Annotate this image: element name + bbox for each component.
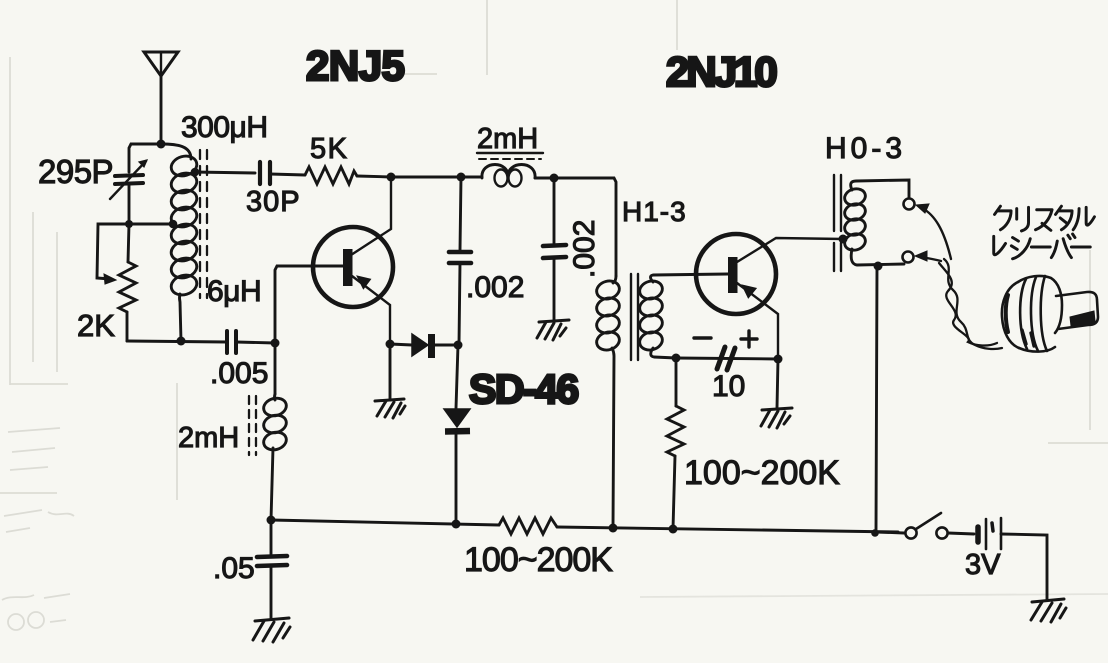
svg-text:30P: 30P bbox=[246, 186, 301, 218]
node rail L3 junction bbox=[267, 516, 276, 525]
svg-text:100~200K: 100~200K bbox=[464, 541, 613, 579]
capacitor C6 10uF electrolytic bbox=[676, 331, 778, 370]
switch S1 bbox=[876, 513, 974, 539]
node coil bottom junction bbox=[177, 337, 186, 346]
transistor Q1 2NJ5 bbox=[313, 177, 393, 344]
ground bottom right bbox=[1031, 599, 1066, 622]
wire emitter junction to ground bbox=[777, 359, 778, 408]
transformer T1 H1-3 bbox=[595, 274, 728, 528]
node C collector junction bbox=[387, 173, 396, 182]
svg-text:.05: .05 bbox=[213, 552, 255, 585]
svg-text:2NJ10: 2NJ10 bbox=[666, 48, 776, 95]
terminal 2 bbox=[903, 252, 914, 263]
node H diode junction bbox=[454, 341, 463, 350]
wire arrow to terminal 1 bbox=[916, 204, 951, 259]
variable capacitor C1 295P bbox=[110, 160, 147, 199]
wire 5K to node C bbox=[357, 176, 391, 177]
transistor Q2 2NJ10 bbox=[696, 234, 843, 357]
node rail H1-3 junction bbox=[609, 524, 618, 533]
node I bias left junction bbox=[672, 354, 681, 363]
svg-text:.002: .002 bbox=[466, 271, 524, 304]
node HO-3 bottom junction bbox=[874, 262, 883, 271]
svg-text:295P: 295P bbox=[38, 153, 113, 190]
node HO-3 tap bbox=[839, 235, 848, 244]
ground under Q1 emitter bbox=[375, 399, 405, 418]
capacitor .002 first bbox=[449, 177, 471, 344]
svg-text:.005: .005 bbox=[210, 357, 268, 390]
svg-text:6μH: 6μH bbox=[207, 275, 261, 308]
label crystal receiver katakana bbox=[994, 206, 1095, 259]
transformer T2 HO-3 bbox=[834, 175, 909, 271]
ground bottom left bbox=[253, 618, 290, 642]
core of L1 (dashed) bbox=[200, 150, 207, 298]
node G emitter junction bbox=[386, 340, 395, 349]
capacitor .005 bbox=[227, 331, 236, 353]
wire junction to variable capacitor bbox=[129, 144, 161, 172]
wire twisted cord bbox=[939, 259, 1002, 349]
wire node F to 2mH vertical coil bbox=[274, 343, 277, 394]
core of L3 dashed bbox=[249, 396, 256, 455]
wire node C to node D bbox=[391, 176, 461, 179]
wire pot bottom to .005 bbox=[127, 341, 227, 342]
antenna bbox=[144, 52, 178, 76]
terminal 1 bbox=[904, 199, 915, 210]
svg-text:H0-3: H0-3 bbox=[825, 132, 906, 165]
svg-text:100~200K: 100~200K bbox=[684, 454, 840, 492]
wire node D to 2mH choke bbox=[461, 176, 482, 179]
wire bottom rail left bbox=[271, 520, 499, 525]
wire choke to node E bbox=[535, 177, 554, 180]
svg-text:300μH: 300μH bbox=[181, 111, 268, 144]
resistor R3 100-200K vertical bbox=[667, 358, 684, 529]
ground under .002 second bbox=[537, 320, 569, 340]
svg-text:3V: 3V bbox=[965, 549, 1001, 581]
svg-text:2mH: 2mH bbox=[178, 422, 239, 454]
node rail R3 junction bbox=[669, 525, 678, 534]
wire tap to coil bbox=[129, 223, 172, 226]
ground under Q2 emitter bbox=[761, 408, 792, 428]
node F base junction bbox=[271, 339, 280, 348]
node E junction bbox=[550, 174, 559, 183]
core of L2 bbox=[477, 152, 543, 154]
wire emitter to ground bbox=[389, 344, 392, 400]
svg-text:5K: 5K bbox=[310, 133, 348, 165]
inductor L3 2mH bbox=[262, 394, 289, 520]
wire 30P to 5K bbox=[270, 174, 305, 175]
node rail diode junction bbox=[452, 520, 461, 529]
wire potentiometer wiper bbox=[97, 224, 129, 279]
wire .005 to node F bbox=[236, 342, 275, 343]
node J emitter junction bbox=[774, 355, 783, 364]
node antenna junction bbox=[157, 140, 166, 149]
node B junction bbox=[125, 220, 133, 228]
svg-text:.002: .002 bbox=[568, 220, 601, 278]
wire HO-3 down to rail bbox=[876, 266, 877, 532]
svg-text:2mH: 2mH bbox=[477, 123, 538, 155]
diode D2 SD-46 to rail bbox=[444, 345, 470, 524]
resistor 5K bbox=[305, 167, 357, 184]
potentiometer R1 2K bbox=[119, 224, 136, 341]
svg-text:H1-3: H1-3 bbox=[622, 196, 687, 227]
svg-text:2K: 2K bbox=[77, 308, 115, 343]
battery B1 3V bbox=[978, 518, 1047, 600]
wire arrow to terminal 2 bbox=[915, 251, 941, 261]
wire coil to 30P bbox=[193, 172, 255, 173]
capacitor .05 bbox=[257, 520, 287, 619]
node D junction bbox=[457, 173, 466, 182]
earphone crystal receiver bbox=[1002, 276, 1098, 352]
svg-text:SD-46: SD-46 bbox=[469, 366, 578, 412]
node rail HO-3 junction bbox=[871, 529, 879, 537]
wire base network vertical bbox=[275, 266, 313, 343]
diode D1 bbox=[390, 334, 455, 358]
wire bottom rail right bbox=[557, 527, 898, 532]
inductor L1 antenna coil bbox=[161, 144, 199, 341]
capacitor 30P bbox=[260, 162, 270, 184]
node coil tap bbox=[169, 220, 178, 229]
svg-text:2NJ5: 2NJ5 bbox=[306, 42, 405, 89]
wire antenna lead down bbox=[160, 76, 163, 144]
wire node E to H1-3 primary bbox=[554, 178, 616, 276]
resistor R2 100-200K horizontal bbox=[499, 518, 557, 534]
capacitor .002 second bbox=[543, 178, 566, 320]
svg-text:10: 10 bbox=[712, 370, 745, 403]
node coil output tap bbox=[191, 168, 200, 177]
wire capacitor to node B bbox=[128, 184, 131, 224]
inductor L2 2mH choke bbox=[482, 165, 535, 187]
